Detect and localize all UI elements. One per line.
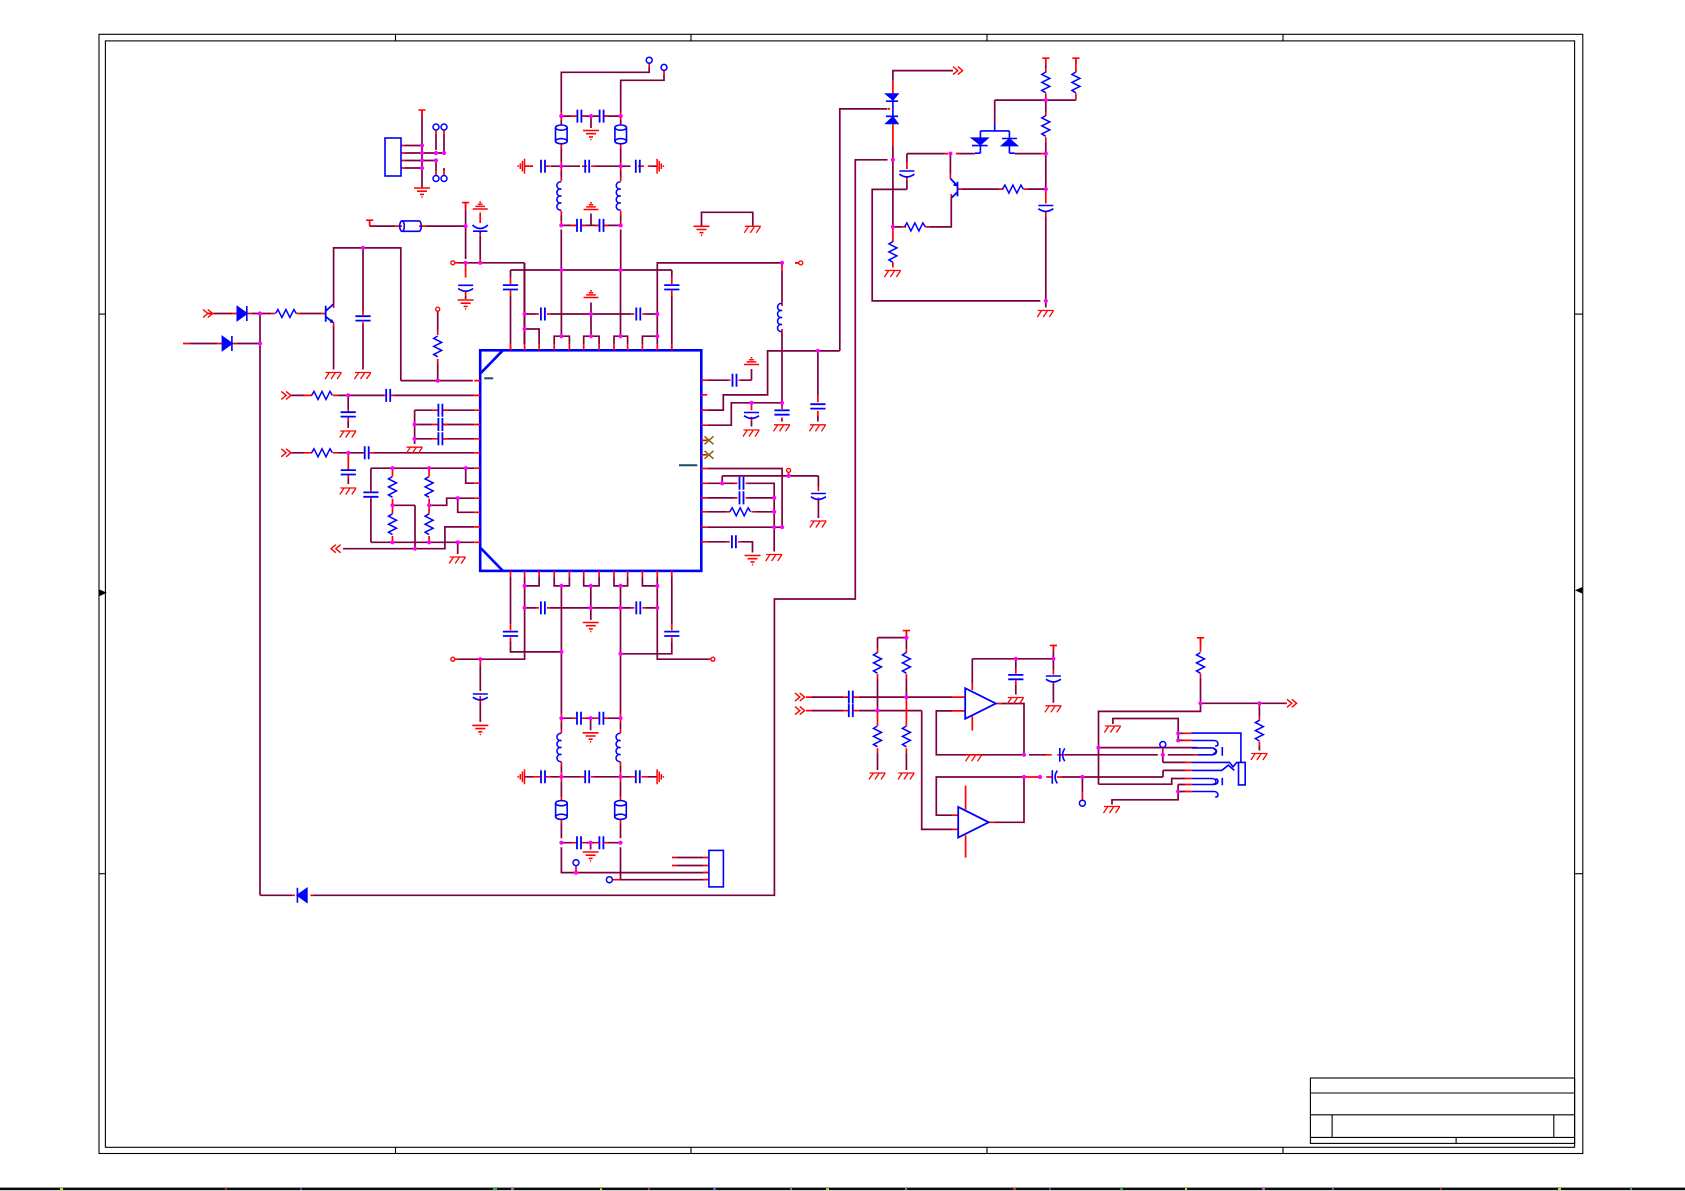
resistor Q2 emitter [905,223,926,231]
title block divider left [1331,1115,1333,1138]
wire lower-left R1 column [393,505,416,548]
crystal Y1 [556,125,568,144]
ground TP header [414,188,430,197]
border zone tick bottom 4 [1282,1147,1284,1153]
title block row line 1 [1310,1092,1574,1094]
cap C_xtal1 (pin T1 col) [503,285,518,289]
wire D1 to resistor to Q1 base [252,313,321,315]
wire pin R11 [707,526,783,528]
input port arrow opamp B [795,707,805,715]
cap osc row2 a [541,160,545,173]
wire filter cap row C [561,843,620,850]
cap pin R9 [740,491,744,504]
analog ground osc row3 [584,203,599,210]
resistor Q2 lower [889,242,897,263]
red opamp stubs [806,631,1287,858]
ferrite bead FB1 [400,221,422,231]
cap pin R4 net b [774,410,789,414]
cap U1 rail [1008,675,1023,679]
wire opamp input row B [812,711,952,830]
inductor filter left [557,733,561,761]
ground Q2 lower resistor [884,271,901,278]
ground filter rowA [583,733,599,742]
cap osc row3 left [577,219,581,232]
border zone tick bottom 3 [986,1147,988,1153]
dual diode pair D5 [972,123,1017,153]
ground jack gnd2 [1104,807,1121,814]
input port arrow opamp A [795,693,805,701]
diode D2 [222,336,232,351]
red left area stubs [183,303,448,542]
ground jack out resistor [1251,754,1268,761]
cap C_p2 series [386,389,390,402]
output port arrow IF [331,545,341,553]
cap opamp row A [849,691,853,704]
resistor Rc [1042,116,1050,137]
cap IC bottom pin12 [664,632,679,636]
polarized cap Q2 top [899,171,914,177]
connector J2 [709,850,724,887]
border zone tick right b [1575,873,1583,875]
wire IC top pin2/pin3 hook [525,263,540,345]
wire IF port row [343,527,474,549]
border zone tick top 2 [690,34,692,41]
resistor pin R10 [730,508,751,516]
red power stem TP header [421,110,423,116]
ground tie earth symbol [694,226,710,235]
wire IC bottom pin2 column [459,577,525,722]
ground jack gnd1 [1104,726,1121,733]
red filter stubs [292,608,711,895]
wire filter cap row A [561,718,620,730]
wire port2 row [291,395,474,428]
ground U1 rail cap [1007,698,1024,705]
wire diode bus vertical [259,314,261,896]
ground bias b [898,773,915,780]
resistor R_p3 [312,449,333,457]
resistor jack power [1197,653,1205,674]
wire pin R7 [707,469,782,528]
wire diode stack lower [892,146,894,227]
resistor block R1 lower [389,514,397,535]
input port arrow port2 [281,391,291,399]
wire port3 row [291,439,474,484]
wire pin R10 [707,511,774,513]
polarized cap C_pwr [458,285,473,291]
chassis earth osc row2 right [657,159,663,174]
wire tp resistor column [437,311,439,380]
wire U2 output [995,777,1025,822]
wire resistor column right top [995,64,1076,301]
resistor Q2 base [1003,185,1024,193]
polarized cap U2 out [1052,770,1057,784]
wire connector pin1 [677,857,703,859]
wire IC bottom hook pins2-3 [525,577,540,586]
wire pin R8 [707,483,774,527]
cap filter rowB c [636,770,640,783]
power symbol opamp bias [903,631,910,637]
red test point row stub [782,263,799,333]
resistor bias a upper [874,653,882,674]
cap osc row3 right [600,219,604,232]
polarized cap right column [1038,206,1053,212]
terminal circle row263 [451,261,455,265]
wire jack gnd1 [1113,719,1183,741]
red IC top cap row stubs [536,313,645,315]
terminal circle IF out left [451,657,455,661]
ground C_p2 [340,431,357,438]
cap C_p3 shunt [341,470,356,474]
wire lower-left bottom row [371,542,474,554]
test circle U1 out [1160,742,1166,748]
wire pin12 cap column [621,577,672,654]
title block outline [1310,1078,1574,1143]
title block row line 3 [1310,1136,1574,1138]
cap filter rowA left [577,712,581,725]
IC pin1 indicator dash top [484,377,493,379]
resistor bias b upper [902,653,910,674]
red bead row stubs [370,203,466,227]
wire jack gnd2 [1112,785,1185,805]
border zone tick top 4 [1282,34,1284,41]
wire U1 power rail [972,652,1053,703]
wire connector pin2 [677,865,703,867]
op-amp U2 [958,807,989,838]
test circle TP1a [433,124,439,130]
ground cap Q1 [355,373,372,380]
wire pin R9 [707,497,774,499]
power symbol TP header [418,110,425,116]
crystal Y4 [615,801,627,820]
wire long bottom net [260,160,888,896]
wire IC top hook pins8-9 [614,336,628,344]
bottom scan noise strip [0,1188,1685,1191]
red osc cap row stubs [526,116,652,225]
wire port1 to diode D1 [214,313,232,315]
border zone tick right a [1575,313,1583,315]
ground U1 rail pcap [1045,706,1062,713]
wire diode pair right link [1015,153,1041,155]
wire U2 feedback loop [936,777,1024,815]
cap column 817 to gnd [810,404,825,408]
wire IC top cap row 314 [525,313,658,315]
cap Q1 collector net [355,316,370,320]
analog ground symbol trimmer [473,202,488,209]
ground tie chassis symbol [744,226,761,233]
ground pin R4 net a [743,430,760,437]
diode D1 [237,306,247,321]
inductor Lc [778,303,782,331]
resistor R_tp [434,336,442,357]
wire U1 out cap row [1029,755,1194,763]
wire crystal osc right column [621,75,665,336]
ground cap stack [406,447,423,454]
wire opamp bias rail top [878,634,907,770]
wire R8 test point row [722,476,818,518]
cap C_p2 shunt [341,412,356,416]
output port arrow top right [953,67,963,75]
border zone tick top 3 [986,34,988,41]
wire TP header net [405,116,444,188]
ground U1 feedback [966,755,983,762]
wire osc cap row2 [525,165,658,167]
wire crystal osc left column [561,68,649,337]
IC right pin stubs [701,380,707,542]
title block row line 2 [1310,1114,1574,1116]
cap osc row2 c [636,160,640,173]
wire osc cap row1 [561,116,620,128]
cap pin R12 [732,535,736,548]
ground cap column 817 [809,425,826,432]
wire pin R4 row 402.8 [707,403,782,427]
terminal circle L1 net [436,307,440,311]
power symbol jack net [1197,638,1204,644]
wire pin R12 [707,542,752,553]
wire R8 net ground stem [773,527,775,551]
IC left pin stubs [474,381,480,543]
test circle osc B [661,64,667,70]
wire output port top right [893,71,953,80]
wire power net jack [1099,679,1286,785]
terminal circle IF out right [711,657,715,661]
border zone tick bottom 1 [395,1147,397,1153]
wire IC top hook pins6-7 [584,336,599,344]
ground R8 net [766,555,783,562]
connector TP header [385,138,401,176]
test circle U2 out [1079,800,1085,806]
wire Q2 upper arm [949,154,951,174]
red right side stubs [726,380,818,542]
dual diode stack D4 [886,94,898,124]
wire long vertical to top right [840,109,887,351]
red osc column stubs [561,112,620,225]
ground R8 net cap [810,521,827,528]
resistor R_p2 [312,391,333,399]
resistor Ra [1042,72,1050,93]
wire U2 out cap row [1062,770,1185,792]
wire IC bottom hook pins10-11 [642,577,657,586]
cap osc row1 right [600,110,604,123]
cap opamp row B [849,704,853,717]
cap lower-left [363,492,378,496]
chassis earth filter rowB left [518,769,524,784]
cap C_xtal2 (pin T12 col) [664,285,679,289]
cap filter rowC left [577,836,581,849]
red trimmer stem [479,213,481,237]
wire Q2 base row [962,188,1046,190]
ground C_p3 [340,488,357,495]
resistor block R2 upper [425,477,433,498]
analog ground pin R1 [744,358,759,365]
test circle TP1d [441,176,447,182]
resistor block R1 upper [389,477,397,498]
resistor block R2 lower [425,514,433,535]
crystal Y2 [615,125,627,144]
wire ground tie bridge [702,212,753,225]
trimmer capacitor C_tr [473,225,488,233]
wire pin11 to terminal [657,586,709,659]
border centering arrow right [1575,587,1582,594]
polarized cap R8 net [811,494,826,500]
cap IC bottom row right [636,601,640,614]
wire osc cap row3 [561,214,620,226]
power symbol Rb [1072,58,1079,64]
test circle filter left [573,860,579,866]
border zone tick left a [99,313,105,315]
cap stack c [438,432,442,445]
cap IC top row left [541,308,545,321]
wire IC bottom cap row [525,608,658,620]
diode D3 bottom net [297,888,307,903]
red row263 stubs [455,259,480,296]
op-amp U3 IC body [480,350,701,571]
resistor Rb [1072,72,1080,93]
inductor L1 [557,182,561,210]
wire row270 cap link [511,270,672,344]
wire Q2 lower arm [893,199,951,227]
phone jack J1 contacts [1191,733,1241,797]
title block bottom divider [1455,1137,1457,1143]
wire bead power row [370,210,466,299]
power symbol Ra [1042,58,1049,64]
border centering arrow left [100,590,107,597]
wire IC top hook pins10-11 [642,336,657,344]
wire trimmer column [479,236,481,259]
op-amp U1 [965,688,996,719]
wire U1 output [1002,704,1025,755]
IC top pin stubs [511,344,672,350]
wire filter left column [561,652,709,873]
ground bias a [869,773,886,780]
chassis earth osc row2 left [518,159,524,174]
wire stacked caps left rail [415,410,475,444]
cap osc row2 b [585,160,589,173]
ground osc row1 [583,131,599,140]
wire IC top agnd stem [590,303,592,337]
border zone tick bottom 2 [690,1147,692,1153]
red top right stubs [888,58,1076,267]
wire diode pair stem [994,100,996,123]
wire Q1 collector net [334,248,473,381]
wire U1 feedback loop [936,711,1024,755]
inductor filter right [616,733,620,761]
cap IC top row right [636,308,640,321]
ground Q1 emitter [325,373,342,380]
IC pin indicator dash right [679,464,697,466]
title block divider right [1553,1115,1555,1138]
wire opamp input row A [812,696,952,698]
wire Q2 emitter top row [872,154,1046,308]
resistor bias a lower [874,726,882,747]
phone jack J1 sleeve [1239,762,1246,785]
no-connect X mark pin R5 [705,436,714,444]
cap C_p3 series [365,446,369,459]
power symbol U1 rail [1050,645,1057,651]
wire filter cap row B [525,776,658,778]
test circle TP1b [441,124,447,130]
power symbol P2 [462,203,469,209]
wire IC bottom hook pins4-5 [554,577,569,652]
ground pin R4 net b [774,425,791,432]
input port arrow port3 [281,449,291,457]
cap osc row1 left [577,110,581,123]
terminal circle R8 net [787,468,791,472]
ground IC bottom row [583,623,599,632]
cap IC bottom row left [541,601,545,614]
ground lower-left [449,557,466,564]
ground C_pwr [458,300,474,309]
no-connect X mark pin R6 [705,451,714,459]
cap filter rowB a [541,770,545,783]
ground pin R12 [745,556,761,565]
test circle filter right [606,877,612,883]
transistor Q1 [326,304,335,323]
wire filter right column [621,654,709,880]
wire IC bottom hook pins6-7 [584,577,599,608]
cap filter rowA right [599,712,603,725]
wire IC bottom hook pins8-9 [614,577,628,654]
polarized cap pin R4 net a [744,413,759,419]
cap pin R1 [733,374,737,387]
wire pin11 column up to test point [657,263,799,336]
polarized cap IF left [473,694,488,700]
wire row263 to IC pin T2 [459,263,524,345]
ground right column [1037,311,1054,318]
cap stack a [438,404,442,417]
wire cap column 817 [817,351,819,422]
power symbol bead row [366,220,373,226]
resistor R_b1 [276,310,297,318]
test circle osc A [646,57,652,63]
pin stubs TP header [401,146,405,169]
input port arrow port1 [203,310,213,318]
cap filter rowC right [599,836,603,849]
cap pin R8 [740,477,744,490]
wire IC bottom pin1 cap column [511,577,562,652]
resistor jack out [1255,720,1263,741]
IC bottom pin stubs [511,571,672,577]
inductor L2 [616,182,620,210]
ground filter rowC [583,852,599,861]
ground IF left cap [472,725,488,734]
red osc circles stems [649,63,664,75]
resistor bias b lower [902,726,910,747]
red TP header circles stems [436,130,444,176]
wire lower-left R2 column [429,498,474,512]
border zone tick top 1 [395,34,397,41]
wire inductor Lc column down [781,333,783,403]
cap stack b [438,418,442,431]
polarized cap U1 out [1060,748,1065,762]
wire IC top hook pins4-5 [554,336,569,344]
wire lower-left top row [371,468,474,483]
polarized cap U1 rail [1046,676,1061,682]
analog ground IC top [584,291,599,298]
test circle TP1c [433,176,439,182]
cap IC bottom pin1 [503,632,518,636]
red row270 cap stubs [511,278,672,351]
chassis earth filter rowB right [657,769,663,784]
border zone tick left b [99,873,105,875]
wire lower-left cap column [370,468,372,542]
wire pin R3 step route [707,351,840,410]
wire pin R1 to cap [707,369,751,380]
transistor Q2 [950,179,957,199]
crystal Y3 [556,801,568,820]
wire D2 row [190,343,260,345]
terminal circle pin11 net [799,261,803,265]
output port arrow jack [1287,699,1297,707]
